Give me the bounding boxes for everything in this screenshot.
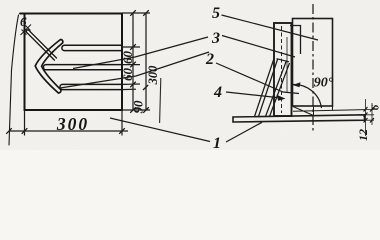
second dimension line right end: [371, 103, 373, 125]
oblique ticks on chain line: [130, 10, 136, 113]
extension line middle slot: [122, 64, 140, 66]
stand plate rear (part 5): [293, 19, 333, 107]
extension lines lower slot: [122, 84, 140, 90]
extension line bottom-left corner: [24, 110, 26, 136]
middle horizontal slot: [43, 65, 122, 70]
dimension 6 oblique ticks: [22, 26, 31, 35]
lower horizontal slot: [60, 84, 122, 89]
leader from label 2 to side view: [216, 63, 299, 94]
svg-text:4: 4: [213, 84, 222, 101]
oblique ticks on 300 line: [143, 10, 149, 113]
svg-text:6: 6: [370, 104, 380, 110]
svg-text:300: 300: [146, 65, 160, 86]
gusset wedge under stand: [293, 106, 333, 116]
leader to label 3 from middle slot: [73, 37, 208, 69]
top horizontal slot: [62, 45, 122, 50]
scan-edge crease line left margin: [9, 15, 19, 145]
vertical crease mark near 300 text: [160, 78, 161, 123]
leader from label 5 to stand: [222, 15, 319, 40]
leader from label 1 to base plate: [226, 122, 262, 142]
extension line top edge: [122, 12, 150, 14]
leader to label 2 from chevron tip: [60, 52, 209, 88]
base plate side view (part 1): [233, 115, 365, 122]
inner step corner of stand: [290, 26, 301, 55]
svg-text:90: 90: [131, 100, 146, 114]
svg-text:12: 12: [356, 129, 370, 141]
plate outline, plan view of template plate 300x300: [20, 14, 122, 111]
oblique ticks bottom dimension: [6, 128, 125, 134]
svg-text:5: 5: [212, 5, 220, 22]
svg-text:6: 6: [20, 14, 27, 29]
thin 6mm strip on base: [293, 110, 365, 112]
arrowhead of angle arc: [293, 82, 301, 87]
svg-text:3: 3: [211, 30, 220, 47]
leader to label 1 from plate bottom: [110, 118, 210, 142]
leader from label 4 to brace: [226, 92, 277, 98]
svg-text:2: 2: [205, 51, 214, 68]
svg-text:90°: 90°: [314, 76, 334, 91]
dimension line for 6 and 12 thickness: [365, 99, 367, 136]
extension lines at right end of base: [365, 110, 375, 121]
dimension 6 extension line at 45 deg: [21, 25, 32, 36]
arrowhead of leader 4: [277, 95, 286, 101]
extension line bottom-right corner: [121, 110, 123, 136]
V-stop edge on template face: [286, 37, 288, 93]
svg-text:60: 60: [120, 68, 135, 82]
brace strut (part 4): [255, 59, 290, 117]
overall 300 dimension line vertical: [145, 13, 147, 110]
svg-text:1: 1: [213, 135, 221, 150]
oblique ticks right end: [364, 107, 375, 123]
extension line top slot: [122, 46, 140, 48]
diagonal slot at top-left corner (width 6): [26, 30, 56, 60]
template plate edge view (part 3): [274, 23, 292, 116]
V-stop chevron band (part 2): [35, 39, 63, 93]
svg-text:300: 300: [56, 114, 89, 134]
extension line bottom edge: [122, 109, 150, 111]
bottom 300 dimension line: [9, 130, 128, 132]
90 degree angle arc: [293, 84, 322, 108]
centre line dash-dot: [312, 4, 314, 131]
leader from label 3 to template edge: [222, 36, 295, 58]
hidden dashed line inside template: [281, 26, 283, 113]
chain dimension line 60/60/90: [132, 13, 134, 110]
